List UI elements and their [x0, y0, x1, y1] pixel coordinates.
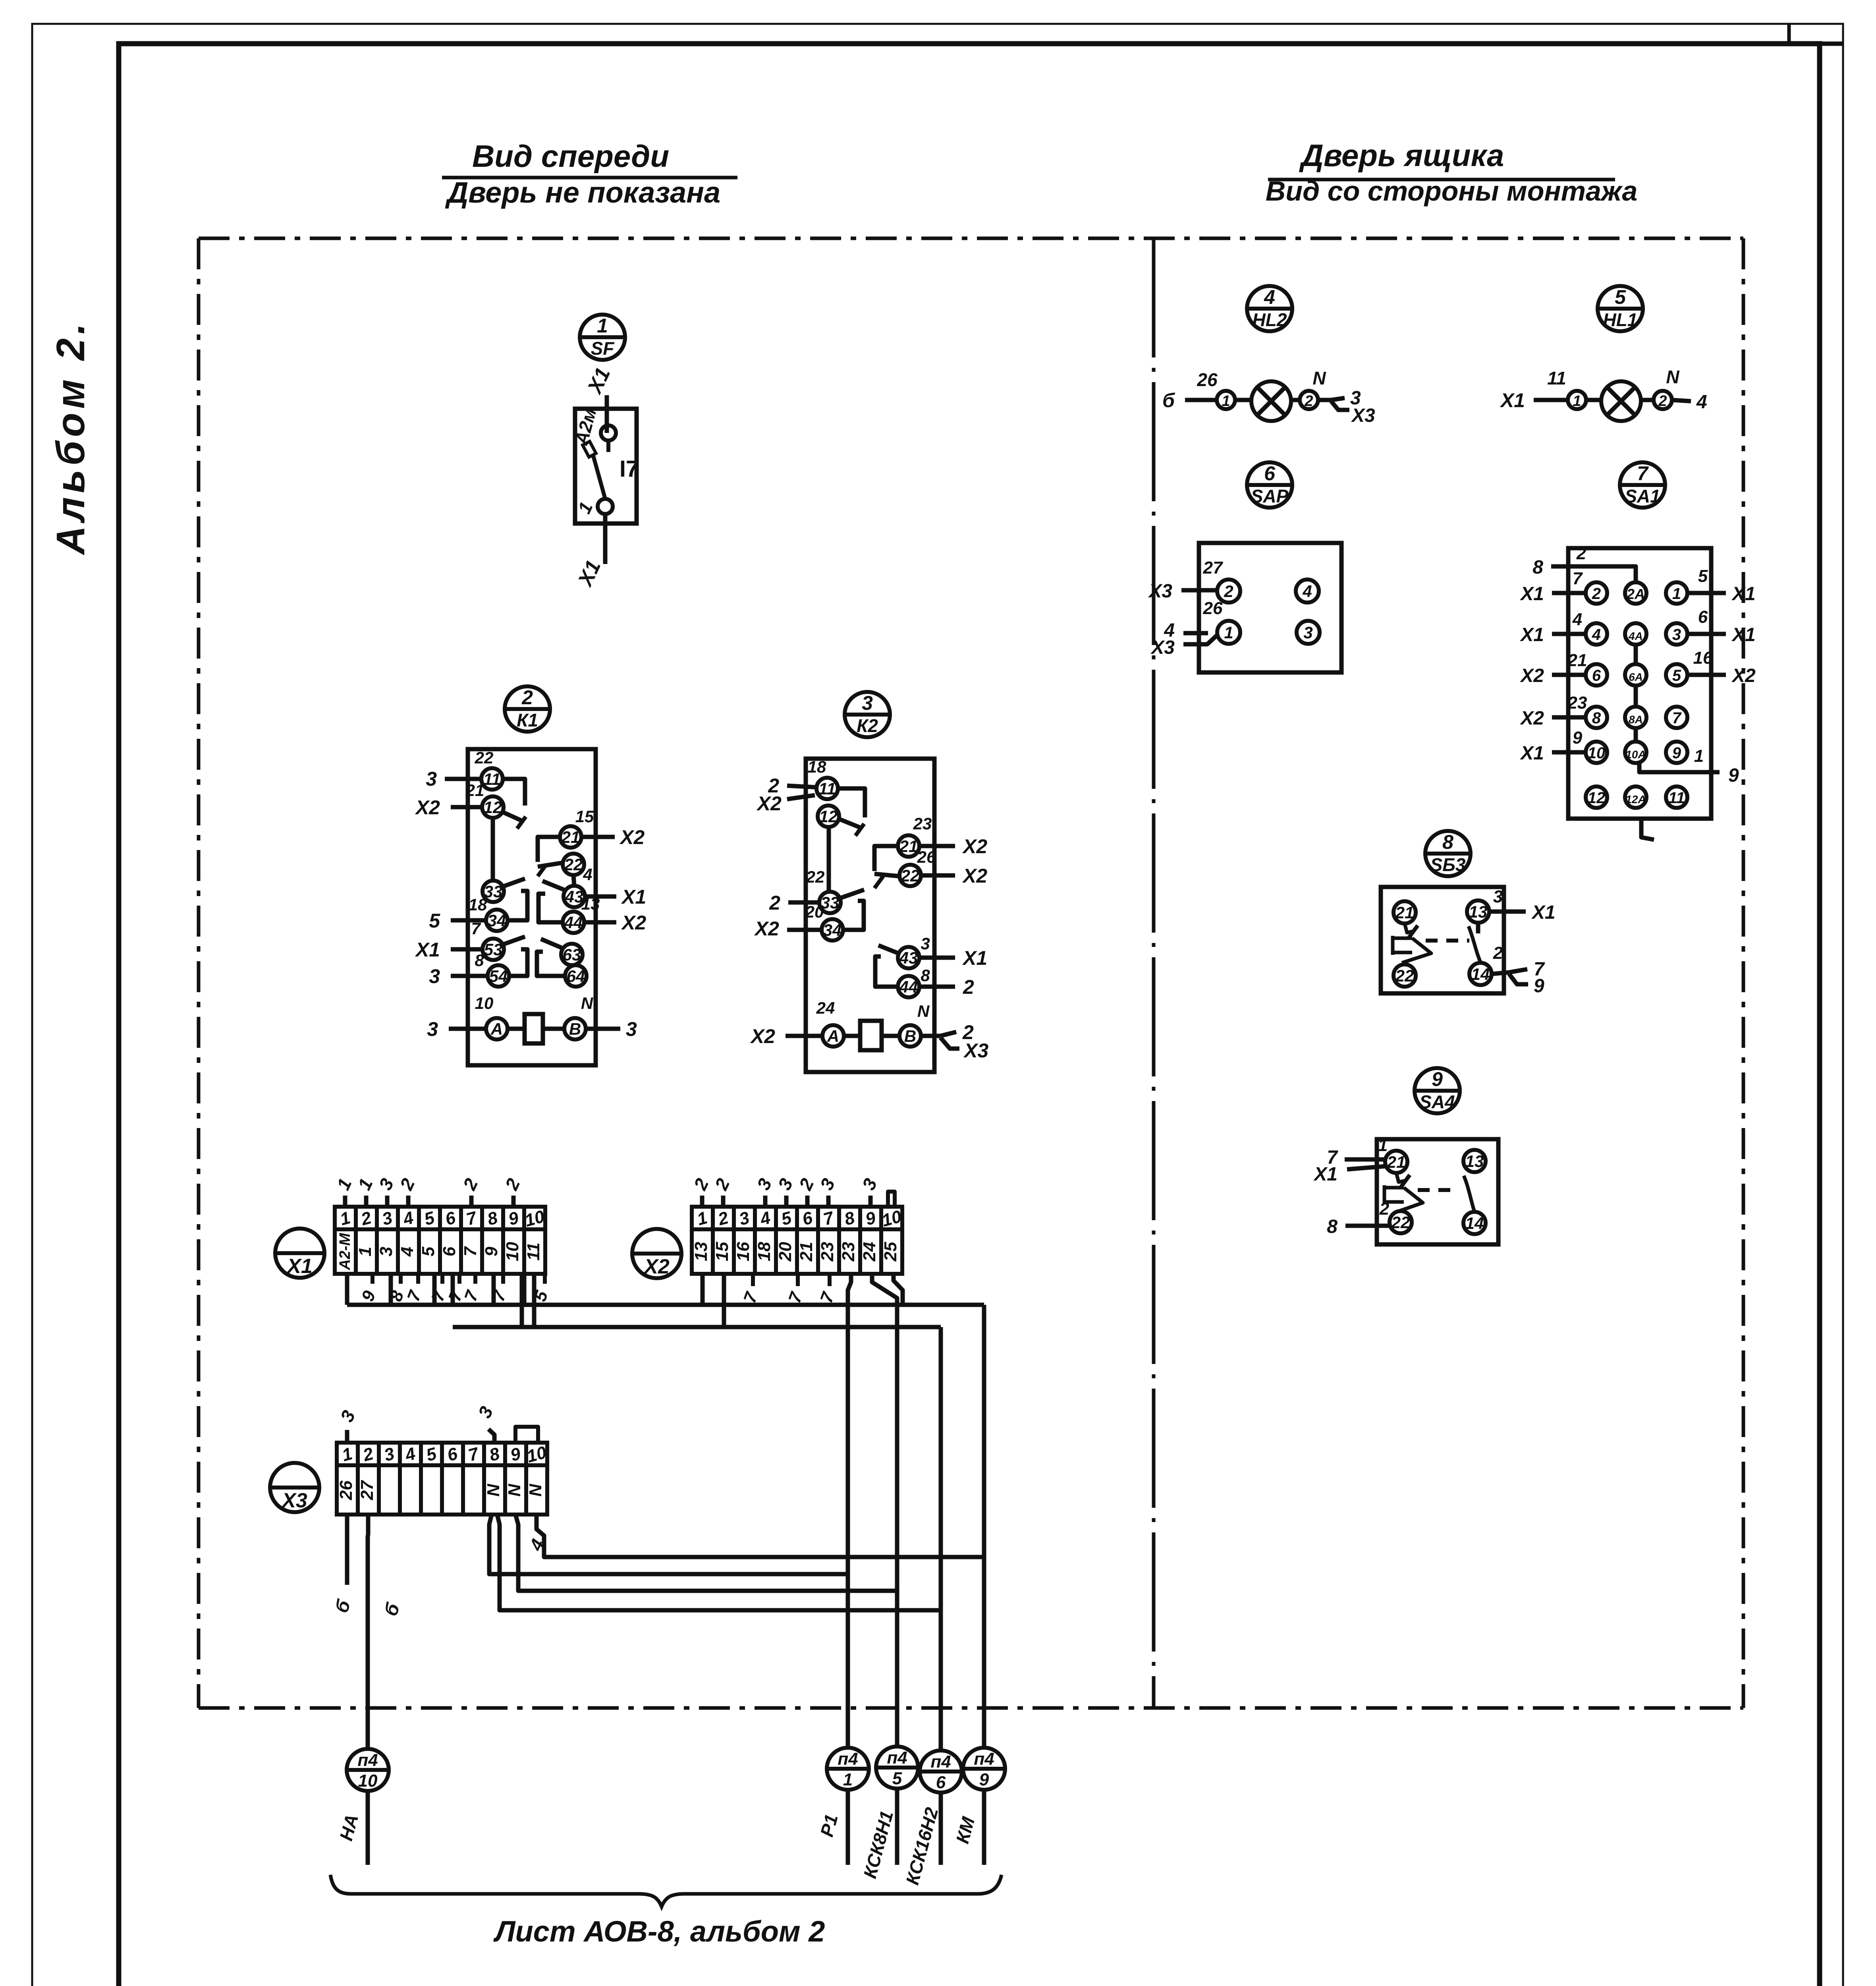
svg-text:18: 18 — [755, 1242, 774, 1261]
svg-text:34: 34 — [488, 911, 506, 930]
cabinet outline (dash-dot) left panel — [199, 238, 1743, 1708]
K1 contact 53 — [483, 939, 504, 960]
svg-text:Х3: Х3 — [281, 1489, 307, 1512]
SB3 moving contact — [1469, 926, 1480, 962]
svg-text:б: б — [1162, 389, 1175, 411]
K2 right leads — [919, 844, 955, 848]
svg-text:HL1: HL1 — [1603, 309, 1638, 330]
svg-text:16: 16 — [1693, 648, 1713, 668]
svg-text:7: 7 — [1672, 709, 1682, 727]
svg-text:11: 11 — [524, 1242, 543, 1261]
SA4 lead 8 to 22 — [1345, 1224, 1390, 1228]
svg-text:Х2: Х2 — [1519, 665, 1544, 686]
X2 col1 stub — [701, 1274, 705, 1305]
svg-text:5: 5 — [892, 1769, 902, 1788]
brace — [330, 1875, 1002, 1907]
SA4 terminal 14 — [1463, 1212, 1486, 1234]
switch SA1 body — [1568, 548, 1711, 819]
wire X3 col2 to P4/10 — [368, 1515, 368, 1749]
svg-text:10: 10 — [1588, 744, 1606, 762]
svg-text:8: 8 — [1442, 831, 1453, 853]
switch SA4 body — [1377, 1139, 1498, 1244]
K1 bracket 43-44 — [538, 894, 562, 922]
svg-text:1: 1 — [1378, 1136, 1388, 1155]
svg-text:1: 1 — [843, 1770, 853, 1789]
svg-text:Х2: Х2 — [750, 1025, 775, 1047]
callout 1/SF — [580, 315, 625, 360]
svg-text:27: 27 — [357, 1480, 377, 1500]
svg-text:п4: п4 — [838, 1749, 858, 1769]
svg-text:8: 8 — [1592, 709, 1601, 727]
svg-text:43: 43 — [899, 949, 918, 967]
svg-text:44: 44 — [899, 978, 918, 996]
svg-text:1: 1 — [1672, 585, 1681, 603]
svg-text:5: 5 — [419, 1246, 438, 1256]
SB3 terminal 22 — [1393, 964, 1416, 987]
svg-text:Х2: Х2 — [619, 826, 645, 848]
svg-text:HL2: HL2 — [1253, 309, 1287, 330]
K1 contact 33 — [483, 881, 504, 902]
svg-text:Х1: Х1 — [962, 947, 987, 969]
K2 contact 12 — [818, 806, 839, 827]
svg-text:Х2: Х2 — [621, 912, 646, 934]
svg-text:8: 8 — [1327, 1216, 1338, 1237]
svg-text:2: 2 — [769, 892, 780, 914]
svg-text:1: 1 — [597, 315, 608, 337]
svg-text:22: 22 — [475, 748, 494, 767]
SA1 terminals row 6 — [1586, 786, 1607, 808]
title: Dver yashchika — [1266, 138, 1638, 207]
svg-text:1: 1 — [1573, 393, 1581, 410]
SA1 wire 10A elbow right — [1639, 763, 1720, 772]
svg-text:6: 6 — [1592, 667, 1601, 684]
callout 3/K2 — [845, 692, 890, 737]
K1 wire 11 elbow to 12 — [502, 779, 525, 806]
SA4 dashed link — [1418, 1188, 1458, 1192]
svg-text:21: 21 — [1395, 903, 1414, 922]
svg-text:N: N — [1312, 368, 1326, 388]
svg-text:9: 9 — [1432, 1068, 1443, 1090]
svg-text:6А: 6А — [1629, 671, 1643, 683]
breaker SF — [571, 364, 639, 591]
svg-text:Вид спереди: Вид спереди — [472, 139, 669, 174]
svg-text:Х1: Х1 — [1519, 624, 1544, 645]
svg-text:Х3: Х3 — [1150, 637, 1175, 658]
svg-text:63: 63 — [563, 945, 581, 964]
svg-text:24: 24 — [816, 999, 835, 1017]
svg-text:3: 3 — [376, 1247, 396, 1256]
svg-text:23: 23 — [913, 814, 932, 833]
svg-text:Лист АОВ-8, альбом 2: Лист АОВ-8, альбом 2 — [493, 1915, 825, 1948]
X2 col2 stub — [722, 1274, 726, 1327]
svg-text:5: 5 — [1672, 667, 1681, 684]
K2 contact blade 33 — [840, 890, 864, 898]
svg-text:8: 8 — [1532, 557, 1543, 578]
SA4 actuator — [1384, 1173, 1423, 1211]
svg-text:6: 6 — [1264, 462, 1276, 485]
SB3 terminal 14 — [1469, 963, 1492, 985]
K1 left leads — [445, 777, 481, 781]
svg-text:4: 4 — [1572, 610, 1582, 629]
K1 contact 12 — [482, 796, 504, 818]
button SB3 body — [1381, 887, 1504, 993]
svg-text:Х2: Х2 — [1519, 708, 1544, 729]
relay K2 body — [806, 759, 934, 1072]
svg-text:3: 3 — [426, 768, 437, 790]
wire V2 to P4/5 — [872, 1274, 897, 1746]
svg-text:п4: п4 — [357, 1750, 378, 1770]
K2 contact blade 43 — [878, 945, 898, 953]
K1 contact 64 — [565, 965, 587, 987]
svg-text:А: А — [490, 1020, 503, 1038]
svg-text:11: 11 — [1668, 789, 1685, 807]
svg-text:43: 43 — [565, 887, 584, 906]
svg-text:Х1: Х1 — [1731, 583, 1756, 605]
K2 coil — [860, 1021, 882, 1050]
X2 top stubs — [700, 1196, 704, 1207]
svg-text:14: 14 — [1465, 1214, 1484, 1233]
svg-text:9: 9 — [1728, 765, 1739, 786]
terminal block X3 — [270, 1443, 549, 1515]
svg-text:В: В — [569, 1020, 581, 1038]
cable callout P4/10 — [336, 1749, 389, 1865]
svg-text:9: 9 — [482, 1246, 501, 1256]
svg-text:12А: 12А — [1625, 793, 1646, 806]
callout 2/K1 — [505, 686, 550, 732]
svg-text:Х3: Х3 — [1148, 581, 1172, 602]
svg-text:16: 16 — [733, 1242, 753, 1261]
K2 contact 34 — [822, 919, 843, 941]
svg-text:Х2: Х2 — [962, 835, 987, 858]
svg-text:23: 23 — [818, 1242, 837, 1262]
wire X3 col8b to V3 — [497, 1515, 941, 1610]
svg-text:13: 13 — [1469, 902, 1488, 921]
SA1 terminals row 3 — [1586, 664, 1607, 686]
K1 bracket 63-64 — [537, 952, 564, 976]
SA1 top lead 8 — [1551, 566, 1636, 582]
svg-text:Х1: Х1 — [415, 939, 440, 961]
svg-text:11: 11 — [818, 779, 836, 798]
svg-text:п4: п4 — [887, 1748, 907, 1768]
SA1 right leads — [1687, 591, 1726, 595]
svg-text:25: 25 — [881, 1242, 900, 1262]
svg-text:6: 6 — [1698, 607, 1708, 627]
SA4 terminal 13 — [1463, 1150, 1486, 1172]
K2 contact 11 — [816, 778, 838, 799]
callout 8/SB3 — [1425, 831, 1471, 876]
svg-text:Х1: Х1 — [621, 886, 646, 908]
K1 contact blade 33 — [503, 879, 525, 887]
SA1 left leads — [1552, 591, 1585, 595]
svg-text:8: 8 — [475, 951, 484, 970]
svg-text:Х3: Х3 — [1351, 405, 1375, 426]
K1 wire 12-33 — [491, 818, 495, 881]
K1 coil terminal B — [564, 1018, 586, 1039]
svg-text:Х2: Х2 — [1731, 665, 1756, 686]
svg-text:Х1: Х1 — [1519, 583, 1544, 605]
cable callout P4/9 — [952, 1748, 1005, 1865]
svg-text:SА4: SА4 — [1419, 1092, 1455, 1112]
K1 coil terminal A — [486, 1018, 508, 1039]
K1 contact 34 — [486, 910, 508, 931]
svg-text:10: 10 — [475, 994, 494, 1012]
svg-text:4: 4 — [1264, 286, 1275, 308]
X2 skirt hooks — [751, 1274, 755, 1286]
svg-text:п4: п4 — [930, 1752, 951, 1772]
SA1 terminals row 5 — [1586, 742, 1607, 763]
svg-text:2: 2 — [1576, 544, 1586, 563]
K1 contact blade 63 — [541, 939, 562, 948]
svg-text:4: 4 — [583, 865, 592, 884]
K2 contact 33 — [819, 892, 841, 913]
svg-text:А: А — [827, 1027, 839, 1045]
wire V1 to P4/1 — [848, 1274, 851, 1748]
svg-text:N: N — [484, 1484, 503, 1497]
svg-text:44: 44 — [564, 913, 583, 932]
svg-text:2: 2 — [1304, 393, 1313, 410]
svg-text:26: 26 — [1203, 599, 1223, 618]
svg-text:3: 3 — [626, 1018, 637, 1040]
svg-text:18: 18 — [469, 895, 487, 914]
svg-text:22: 22 — [1395, 966, 1414, 985]
K2 wire 11 elbow — [838, 788, 865, 817]
svg-text:12: 12 — [819, 807, 838, 826]
callout 7/SA1 — [1620, 462, 1665, 508]
svg-text:23: 23 — [839, 1242, 858, 1262]
svg-text:Вид со стороны монтажа: Вид со стороны монтажа — [1266, 176, 1638, 207]
svg-text:4: 4 — [1592, 626, 1601, 643]
svg-text:N: N — [505, 1484, 524, 1497]
SB3 actuator — [1393, 923, 1431, 963]
switch SAP body — [1199, 543, 1341, 672]
wire V3 to P4/6 — [939, 1327, 943, 1750]
svg-text:22: 22 — [806, 867, 825, 886]
svg-text:54: 54 — [489, 967, 508, 985]
svg-text:4: 4 — [1696, 392, 1707, 413]
svg-text:21: 21 — [899, 837, 918, 856]
svg-text:В: В — [904, 1027, 916, 1045]
svg-text:SАР: SАР — [1251, 486, 1289, 506]
lamp HL1 — [1500, 367, 1707, 421]
svg-text:3: 3 — [429, 965, 440, 987]
SAP terminal 3 — [1297, 621, 1320, 644]
wire X3 col9 to V2 — [515, 1515, 897, 1591]
svg-text:9: 9 — [979, 1770, 989, 1789]
svg-text:21: 21 — [1387, 1153, 1406, 1171]
X2 jumper cols 9-10 — [888, 1192, 895, 1207]
svg-text:14: 14 — [1471, 965, 1490, 983]
SA1 terminals row 1 — [1586, 582, 1607, 604]
K2 bracket 43-44 — [875, 956, 898, 987]
SA1 middle column links — [1634, 645, 1638, 664]
svg-text:64: 64 — [567, 967, 585, 985]
svg-text:SА1: SА1 — [1625, 486, 1660, 506]
svg-text:N: N — [917, 1002, 930, 1020]
K1 contact blade 53 — [503, 937, 525, 945]
svg-text:Х1: Х1 — [1500, 389, 1525, 411]
svg-text:18: 18 — [808, 757, 826, 776]
SA4 leads 7 / X1 to 21 — [1345, 1157, 1386, 1162]
svg-text:Х3: Х3 — [963, 1039, 988, 1062]
K1 wire 22-43 — [573, 875, 574, 886]
K1 wire 21 bracket to 22 — [538, 837, 560, 862]
svg-text:4А: 4А — [1628, 630, 1643, 642]
svg-text:10А: 10А — [1625, 748, 1646, 761]
svg-text:3: 3 — [1672, 626, 1681, 643]
cable callout P4/5 — [859, 1746, 918, 1880]
svg-text:I7: I7 — [620, 456, 639, 482]
svg-text:3: 3 — [862, 692, 873, 714]
SA4 terminal 21 — [1385, 1151, 1407, 1173]
svg-text:Х2: Х2 — [643, 1255, 670, 1278]
svg-text:3: 3 — [1303, 623, 1312, 642]
svg-text:1: 1 — [1222, 393, 1230, 410]
svg-text:27: 27 — [1203, 558, 1224, 578]
svg-text:26: 26 — [917, 848, 936, 866]
K2 coil terminal A — [822, 1025, 844, 1047]
K2 contact 21 — [898, 835, 919, 857]
svg-text:7: 7 — [1637, 462, 1649, 485]
svg-text:10: 10 — [503, 1242, 522, 1261]
svg-text:21: 21 — [465, 781, 484, 800]
svg-text:N: N — [1666, 367, 1679, 387]
K2 left leads — [787, 786, 816, 787]
SA1 terminals row 4 — [1586, 707, 1607, 728]
K1 coil — [525, 1014, 543, 1043]
svg-text:13: 13 — [691, 1242, 711, 1262]
X1 top stubs — [343, 1196, 347, 1207]
svg-text:Х2: Х2 — [962, 865, 987, 887]
callout 6/SAP — [1247, 462, 1292, 508]
K2 wire 12-33 — [827, 827, 831, 892]
svg-text:9: 9 — [1672, 744, 1681, 762]
K2 wire 21 bracket — [874, 846, 898, 871]
svg-text:Х1: Х1 — [1731, 624, 1756, 645]
K1 right leads — [581, 835, 615, 839]
svg-text:Х2: Х2 — [756, 792, 782, 815]
K1 contact 11 — [481, 768, 503, 790]
svg-text:N: N — [581, 994, 594, 1012]
svg-text:Х1: Х1 — [1313, 1164, 1338, 1185]
relay K1 body — [468, 749, 596, 1065]
K1 bracket 53-54 — [510, 949, 527, 976]
SAP leads 4 / X3 to 1 — [1183, 631, 1208, 636]
svg-text:26: 26 — [336, 1480, 356, 1500]
K1 contact blade 43 — [542, 881, 564, 890]
svg-text:1: 1 — [355, 1247, 375, 1256]
svg-text:3: 3 — [921, 934, 930, 953]
svg-text:21: 21 — [561, 828, 580, 846]
SB3 13 tail — [1476, 923, 1480, 933]
SB3 terminal 13 — [1467, 900, 1489, 923]
terminal block X2 — [632, 1207, 904, 1278]
svg-text:Х1: Х1 — [1519, 743, 1544, 764]
K1 contact 44 — [563, 912, 584, 933]
svg-text:22: 22 — [901, 866, 920, 885]
svg-text:11: 11 — [483, 770, 501, 788]
svg-text:2: 2 — [963, 976, 974, 998]
svg-text:4: 4 — [398, 1247, 417, 1257]
svg-text:22: 22 — [564, 855, 583, 874]
K2 wire B split to 2 / X3 — [921, 1034, 940, 1038]
svg-text:10: 10 — [358, 1771, 378, 1791]
svg-text:24: 24 — [860, 1242, 879, 1262]
svg-text:11: 11 — [1547, 368, 1566, 388]
svg-text:23: 23 — [1567, 693, 1587, 713]
K1 bracket 33-34 — [509, 891, 527, 920]
svg-text:13: 13 — [1465, 1152, 1484, 1171]
panel divider (dash-dot) — [1152, 238, 1156, 1708]
svg-text:20: 20 — [805, 902, 824, 921]
svg-text:Дверь ящика: Дверь ящика — [1299, 138, 1504, 173]
K1 contact 63 — [561, 944, 583, 965]
svg-text:Х2: Х2 — [754, 918, 779, 940]
SA1 bottom stub — [1641, 819, 1654, 840]
lamp HL2 — [1162, 368, 1375, 426]
bus wire lower — [453, 1325, 941, 1329]
svg-text:п4: п4 — [974, 1749, 994, 1769]
svg-text:6: 6 — [936, 1773, 946, 1792]
svg-text:2: 2 — [1592, 585, 1601, 603]
cable callout P4/1 — [816, 1748, 869, 1865]
svg-text:2: 2 — [521, 686, 533, 709]
X3 jumper cols 9-10 — [515, 1427, 538, 1443]
svg-text:21: 21 — [797, 1242, 816, 1262]
svg-text:1: 1 — [1224, 623, 1233, 642]
SB3 lead 13 to X1 — [1490, 910, 1526, 914]
svg-text:SF: SF — [591, 338, 615, 359]
svg-text:21: 21 — [1567, 651, 1587, 670]
X3 top stubs — [345, 1430, 349, 1443]
SA4 moving contact — [1464, 1176, 1475, 1212]
svg-text:К1: К1 — [517, 710, 538, 730]
svg-text:5: 5 — [1698, 566, 1708, 586]
SA4 terminal 22 — [1390, 1211, 1412, 1233]
svg-text:2А: 2А — [1626, 586, 1645, 602]
svg-text:8А: 8А — [1629, 713, 1643, 726]
cable callout P4/6 — [902, 1750, 962, 1887]
document number box top right — [1789, 24, 1843, 44]
svg-text:12: 12 — [484, 798, 502, 817]
wire X3 col10 to V4 — [537, 1515, 984, 1557]
svg-text:4: 4 — [1302, 582, 1312, 601]
svg-text:15: 15 — [712, 1242, 732, 1261]
svg-text:2: 2 — [1379, 1199, 1390, 1219]
SB3 terminal 21 — [1393, 901, 1416, 923]
svg-text:К2: К2 — [857, 715, 878, 736]
svg-text:7: 7 — [461, 1246, 480, 1256]
K2 bracket 33-34 — [843, 901, 864, 930]
callout 5/HL1 — [1598, 286, 1643, 331]
SB3 dashed link — [1426, 939, 1469, 943]
X2 col10 stub to bus — [894, 1274, 903, 1305]
svg-text:34: 34 — [823, 921, 842, 939]
svg-text:5: 5 — [1615, 286, 1626, 308]
SAP terminal 1 — [1217, 621, 1240, 644]
svg-text:20: 20 — [776, 1242, 795, 1262]
wire V4 to P4/9 — [982, 1305, 986, 1748]
svg-text:2: 2 — [1493, 943, 1503, 963]
terminal block X1 — [275, 1207, 547, 1278]
svg-text:2: 2 — [1224, 582, 1233, 601]
svg-text:7: 7 — [1573, 569, 1583, 588]
K2 contact 43 — [898, 947, 919, 968]
K1 contact 22 — [563, 854, 584, 875]
svg-text:26: 26 — [1197, 369, 1218, 390]
wire X3 col8 to V1 — [489, 1515, 848, 1574]
svg-text:А2-М: А2-М — [337, 1233, 353, 1270]
svg-text:N: N — [526, 1484, 545, 1497]
